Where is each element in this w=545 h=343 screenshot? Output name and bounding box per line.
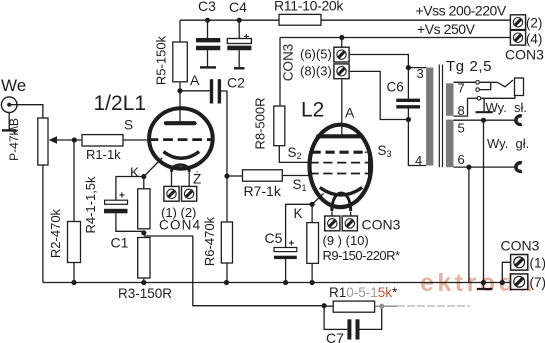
svg-text:C7: C7: [326, 330, 344, 343]
ground (C3): [200, 66, 216, 68]
svg-text:(2): (2): [526, 16, 543, 31]
heater leads (tube 1): [172, 170, 202, 187]
ground (input): [2, 113, 17, 131]
output socket (Wy. sl. hot): [516, 116, 522, 125]
svg-text:(4): (4): [526, 32, 543, 47]
svg-text:CON3: CON3: [505, 47, 544, 63]
wire pin 6 output: [454, 136, 530, 282]
wire feedback from R4/R3 node to R10: [144, 236, 324, 306]
wire pin3 entry: [408, 67, 426, 69]
svg-text:We: We: [1, 76, 26, 95]
svg-text:5: 5: [458, 121, 465, 136]
node K (tube 1): [130, 165, 146, 180]
junction R3/rail: [141, 280, 146, 285]
resistor R6: [202, 176, 233, 283]
grid S2 dashes (L2): [312, 151, 365, 154]
capacitor C1: [104, 191, 129, 251]
cathode wire (L2) to node K: [312, 194, 323, 205]
junction R6/rail: [224, 280, 229, 285]
headphone jack Wy. sl.: [486, 78, 528, 115]
junction CON3(1)/rail: [500, 280, 505, 285]
svg-text:C4: C4: [229, 0, 247, 15]
wire C1 bottom to R4/R3 node: [116, 213, 144, 231]
wire CON3(8)(3) down to L2 anode: [341, 80, 343, 135]
ground symbol on rail: [477, 283, 493, 290]
wire anode to node A: [179, 91, 181, 122]
svg-text:K: K: [294, 206, 303, 221]
svg-text:C3: C3: [198, 0, 216, 14]
primary winding: [426, 68, 433, 166]
secondary winding 7-8: [446, 83, 454, 116]
svg-text:(8)(3): (8)(3): [300, 64, 332, 79]
svg-text:CON3: CON3: [362, 217, 401, 233]
capacitor C3: [196, 0, 220, 67]
svg-text:Ż: Ż: [193, 172, 201, 187]
svg-text:+Vs 250V: +Vs 250V: [417, 21, 476, 37]
rail junction nodes: [71, 280, 505, 285]
svg-text:3: 3: [417, 66, 424, 81]
svg-text:R4-1-1,5k: R4-1-1,5k: [83, 176, 98, 234]
svg-text:A: A: [190, 72, 200, 88]
svg-text:+: +: [289, 239, 295, 250]
resistor R1: [74, 135, 149, 162]
resistor R8: [253, 97, 285, 149]
node C4 junction: [237, 18, 242, 23]
suppressor tie to cathode (L2): [361, 152, 369, 194]
svg-text:CON4: CON4: [159, 218, 201, 233]
wire +Vs rail: [280, 38, 511, 107]
junction R2/rail: [71, 280, 76, 285]
node R7/R6 junction: [224, 173, 229, 178]
svg-text:R7-1k: R7-1k: [244, 183, 282, 199]
svg-text:K: K: [130, 165, 139, 180]
node (wiper / R1 / R2): [72, 137, 77, 142]
svg-text:S: S: [124, 118, 133, 133]
svg-text:C1: C1: [111, 235, 129, 251]
wire K to C5: [286, 204, 313, 247]
anode plate (tube 1): [166, 121, 195, 125]
svg-text:CON3: CON3: [501, 238, 540, 254]
cathode wire (tube 1) to node K: [144, 158, 163, 177]
svg-text:C6: C6: [387, 80, 404, 95]
node A (tube 1 anode): [177, 72, 200, 93]
resistor R10: [322, 285, 399, 312]
svg-text:P-47k\B: P-47k\B: [7, 118, 21, 161]
svg-text:(6)(5): (6)(5): [300, 47, 332, 62]
heater (tube 1): [172, 165, 190, 172]
secondary winding 5-6: [446, 120, 454, 168]
node C6 top: [406, 65, 411, 70]
core: [438, 65, 440, 168]
resistor R9: [307, 204, 400, 282]
wire CON3(6)(5) to transformer pin 3: [349, 55, 408, 68]
input connector We: [1, 76, 26, 112]
wire rail to CON3 (1): [502, 262, 510, 282]
connector CON3 (1)(7): [501, 238, 545, 291]
svg-text:+: +: [119, 191, 125, 202]
svg-text:A: A: [345, 105, 355, 121]
potentiometer P-47k\B: [7, 118, 74, 165]
svg-text:(1): (1): [530, 256, 545, 271]
node R4/R3 junction: [141, 230, 146, 235]
svg-text:R3-150R: R3-150R: [118, 286, 172, 301]
resistor R11: [274, 0, 344, 25]
node +Vs / CON3 stub: [339, 35, 344, 47]
connector CON3 (2)(4): [505, 15, 544, 63]
svg-text:+Vss 200-220V: +Vss 200-220V: [416, 3, 507, 19]
output socket (Wy. gl. hot): [516, 163, 522, 172]
wire R8 to screen grid S2: [279, 146, 310, 163]
resistor R7: [227, 170, 310, 199]
jack switch contact: [476, 82, 491, 91]
svg-text:+: +: [244, 32, 250, 43]
node C3 junction: [205, 18, 210, 23]
node K (L2): [294, 202, 315, 221]
heater (L2): [332, 193, 351, 211]
svg-text:C5: C5: [265, 230, 283, 246]
svg-text:4: 4: [415, 153, 422, 168]
labels S2 S1 S3 (L2 grids): [288, 143, 392, 193]
connector CON4: [159, 186, 201, 232]
svg-text:R11-10-20k: R11-10-20k: [274, 0, 344, 14]
transformer Tg 2,5: [415, 58, 492, 168]
svg-text:L2: L2: [301, 99, 324, 122]
svg-text:R10-5-15k*: R10-5-15k*: [329, 285, 398, 300]
svg-text:R9-150-220R*: R9-150-220R*: [323, 248, 401, 263]
resistor R3: [118, 238, 172, 302]
svg-text:C2: C2: [227, 75, 245, 91]
capacitor C6: [387, 68, 421, 120]
svg-text:R6-470k: R6-470k: [202, 216, 217, 266]
resistor R4: [83, 176, 150, 234]
connector CON3 (6)(5)/(8)(3): [281, 44, 349, 82]
wire top supply rail: [180, 19, 511, 21]
junction speaker return/rail: [481, 280, 486, 285]
wire pin 5 output: [454, 118, 516, 283]
tube L2 envelope: [301, 99, 371, 208]
cathode (L2): [320, 188, 362, 196]
wire C6 node down to pin 4: [408, 120, 426, 166]
svg-text:CON3: CON3: [281, 44, 296, 82]
grid S3 dashes (L2): [310, 162, 369, 164]
svg-text:R2-470k: R2-470k: [48, 208, 63, 258]
faint wire R10 to output tap: [397, 305, 470, 307]
wire C2 to R7/R6 node: [221, 91, 227, 176]
svg-text:6: 6: [458, 152, 465, 167]
svg-text:(9 ) (10): (9 ) (10): [323, 233, 369, 248]
wire K to C1: [116, 177, 144, 201]
svg-text:R5-150k: R5-150k: [154, 35, 169, 85]
wire pot bottom to ground rail: [42, 165, 44, 283]
heater leads (L2): [332, 212, 351, 218]
svg-text:1/2L1: 1/2L1: [94, 92, 147, 115]
svg-text:Wy. gł.: Wy. gł.: [487, 136, 529, 151]
capacitor C2: [180, 75, 245, 104]
capacitor C5: [265, 230, 297, 259]
connector CON3 (9)(10): [323, 216, 401, 248]
anode plate (L2): [318, 134, 362, 138]
capacitor C4: [227, 0, 251, 68]
wire pin 7 to jack switch: [454, 81, 498, 85]
wire C5 to rail: [285, 259, 287, 282]
svg-text:R8-500R: R8-500R: [253, 97, 268, 149]
ground (jack): [476, 98, 493, 112]
grid S1 dashes (L2): [310, 173, 369, 175]
svg-text:R1-1k: R1-1k: [86, 147, 121, 162]
resistor R5: [154, 20, 188, 91]
ground (C4): [234, 67, 245, 69]
ground rail: [43, 282, 511, 284]
svg-text:Tg 2,5: Tg 2,5: [446, 58, 492, 75]
wire CON3(8)(3) to transformer pin 4: [349, 71, 408, 119]
capacitor C7 (parallel with R10): [324, 304, 384, 343]
grid (tube 1): [149, 138, 214, 141]
tube 1/2L1 envelope: [94, 92, 213, 169]
resistor R2: [48, 140, 81, 283]
cathode (tube 1): [163, 152, 199, 159]
wire input to potentiometer: [11, 105, 43, 118]
svg-text:(7): (7): [530, 275, 545, 290]
junction R9/rail: [310, 280, 315, 285]
node C6 bottom: [406, 117, 411, 122]
junction C5/rail: [283, 280, 288, 285]
wire pin 8 to jack sleeve: [454, 96, 515, 117]
